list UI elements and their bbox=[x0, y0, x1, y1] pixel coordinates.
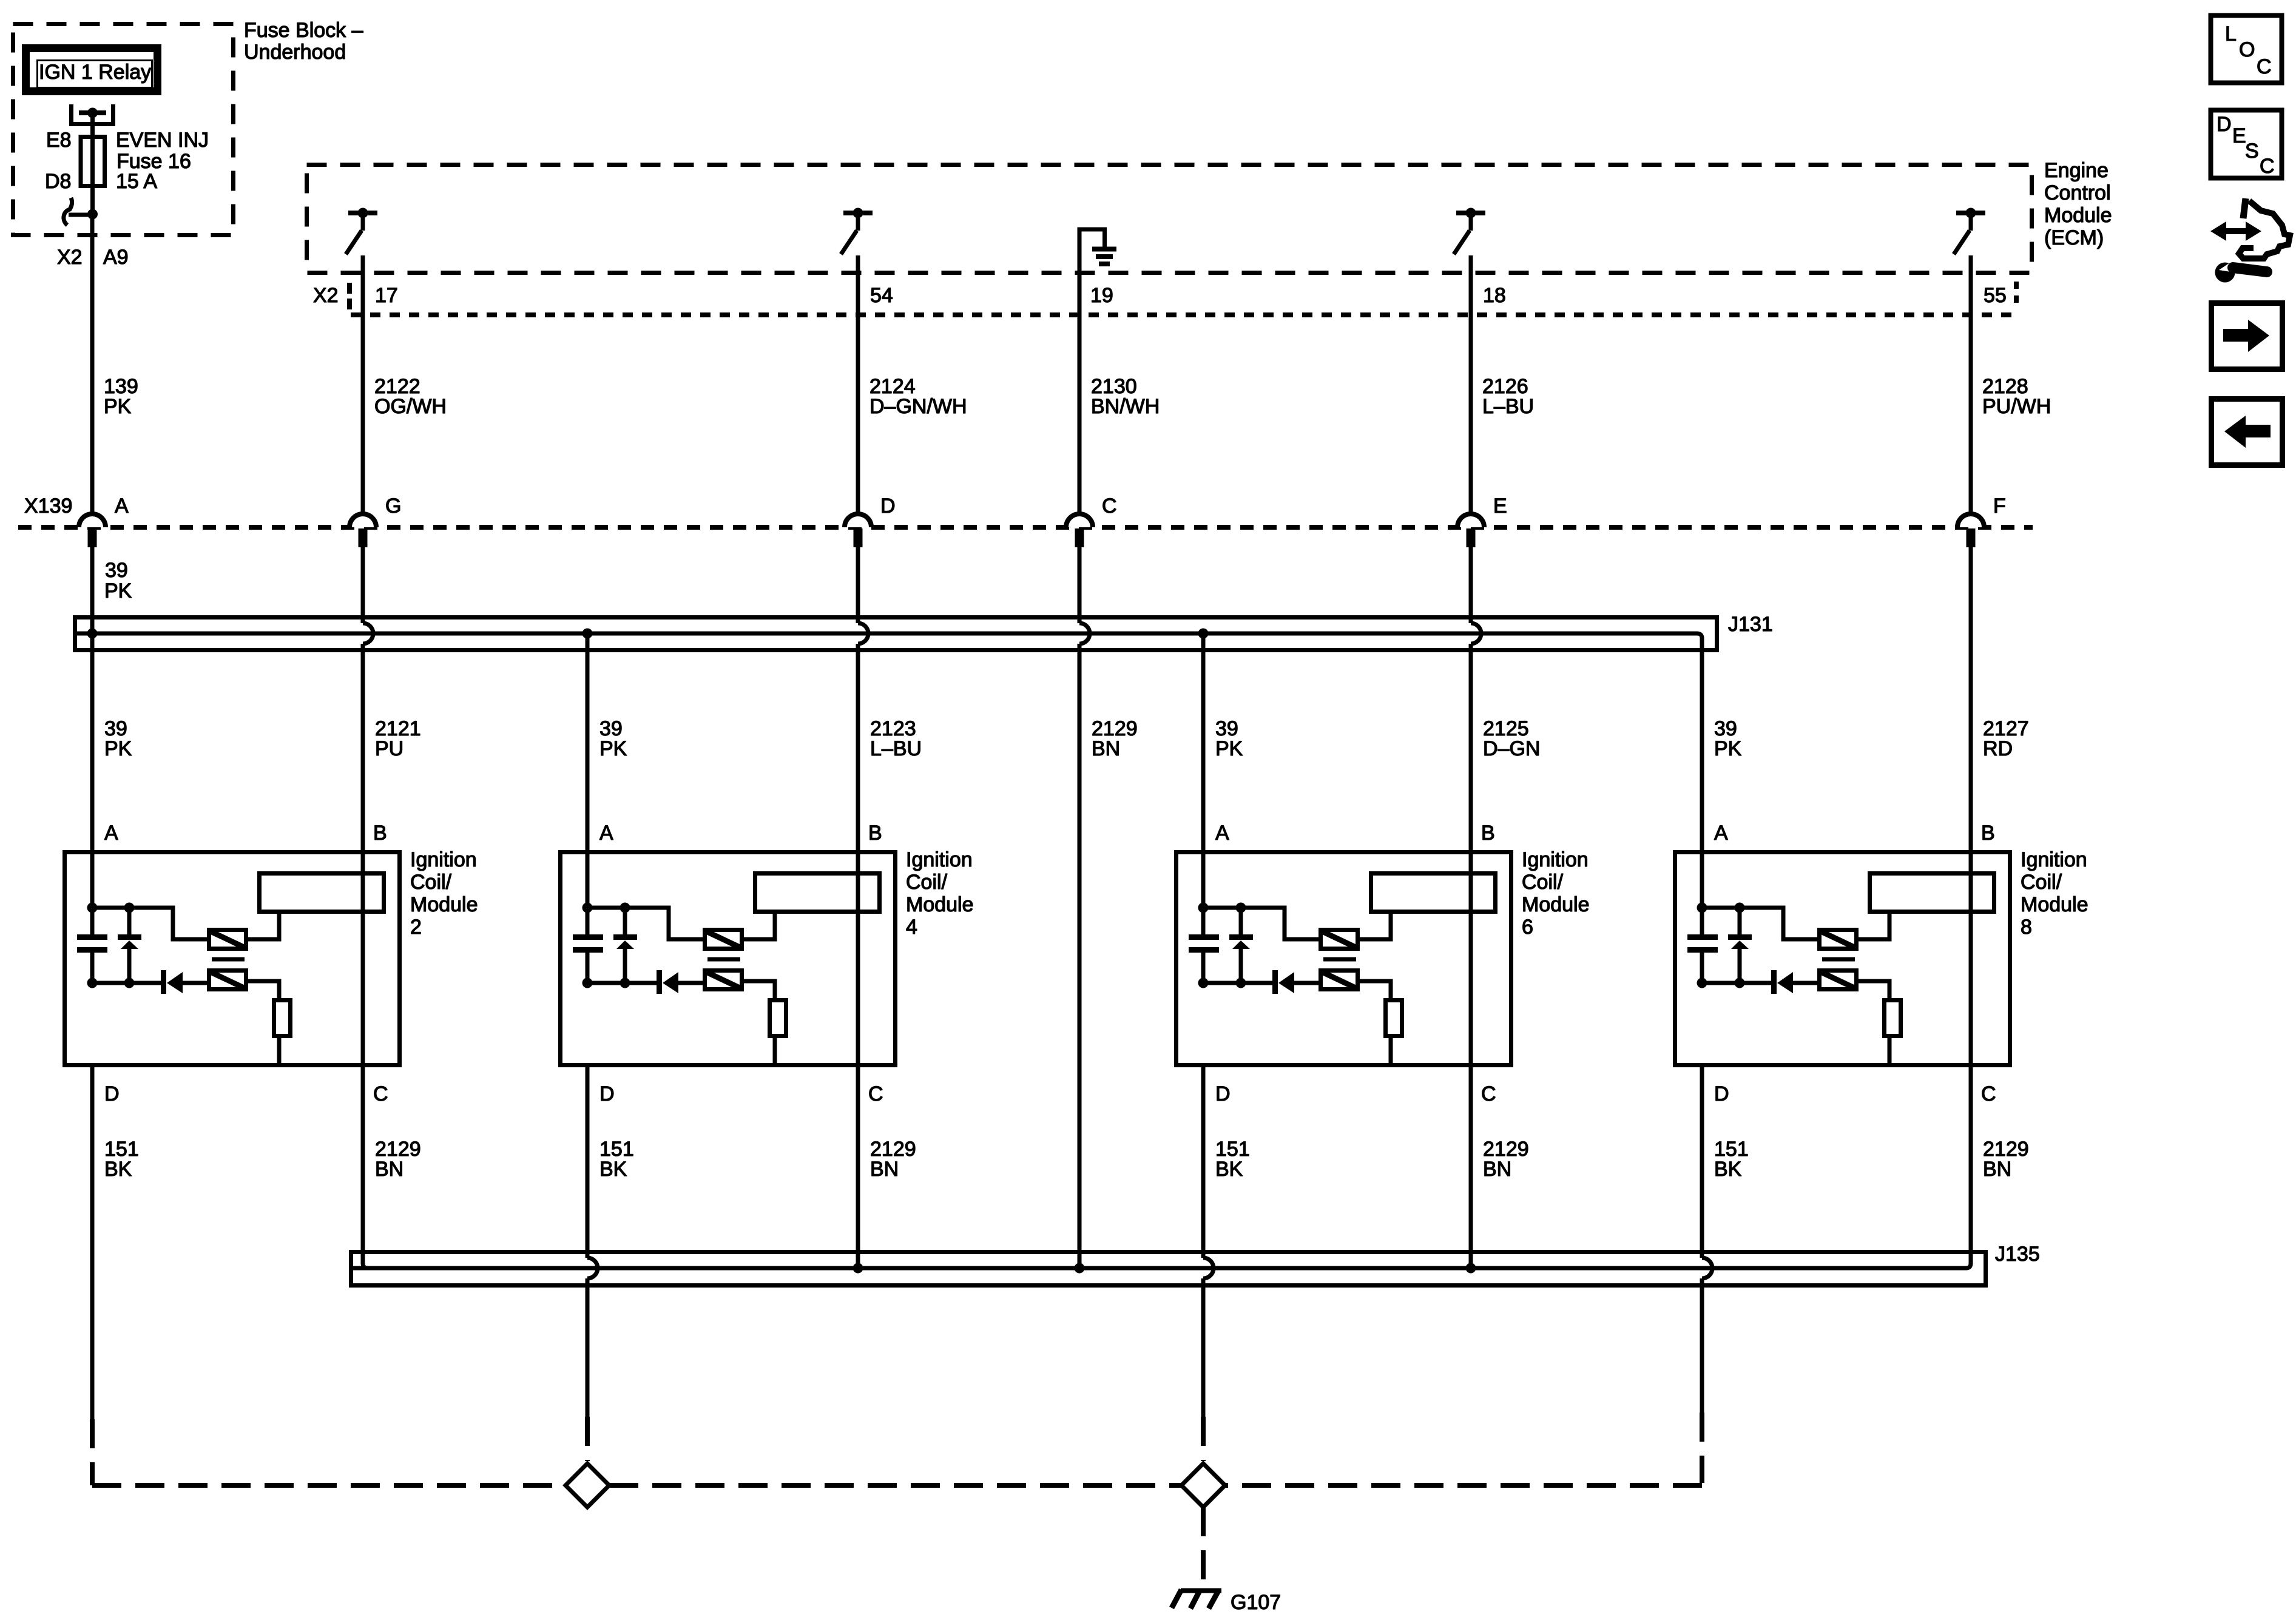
diode D8b (pointing left) bbox=[1774, 970, 1794, 994]
connector X139 dashed line bbox=[18, 525, 2033, 530]
secondary winding block coil 4 bbox=[755, 874, 880, 912]
svg-text:18: 18 bbox=[1483, 284, 1506, 307]
svg-text:C: C bbox=[1481, 1082, 1496, 1106]
svg-text:L–BU: L–BU bbox=[870, 737, 922, 760]
link upper winding to secondary coil 6 bbox=[1360, 914, 1391, 939]
wire segment from X139 to J131 level bbox=[856, 546, 860, 623]
splice pack J131 internal bus wire (39 PK) bbox=[77, 633, 1702, 652]
svg-text:OG/WH: OG/WH bbox=[374, 395, 447, 418]
resistor R2 bbox=[274, 1001, 291, 1066]
svg-text:Module: Module bbox=[2044, 204, 2112, 227]
svg-text:BK: BK bbox=[599, 1158, 627, 1181]
svg-text:19: 19 bbox=[1090, 284, 1113, 307]
splice pack J135 internal bus wire (2129 BN) bbox=[353, 1067, 1971, 1268]
primary winding (upper) coil 4 bbox=[705, 930, 742, 949]
junction dots coil 2 top rail bbox=[87, 903, 135, 913]
relay socket terminal (bracket) bbox=[72, 104, 113, 124]
wire label 2123 L&#8211;BU bbox=[870, 717, 922, 760]
svg-text:B: B bbox=[1481, 822, 1495, 845]
junction dot at relay terminal bbox=[87, 108, 98, 118]
wire label 151 BK bbox=[1215, 1138, 1250, 1181]
svg-text:EVEN INJ: EVEN INJ bbox=[116, 129, 209, 152]
link upper winding to secondary coil 8 bbox=[1859, 914, 1889, 939]
wire 151 BK from coil 8 pin D bbox=[1700, 1067, 1704, 1483]
svg-text:O: O bbox=[2239, 38, 2255, 61]
diode D6b (pointing left) bbox=[1275, 970, 1295, 994]
dashed wire to splice (left run) bbox=[92, 1483, 566, 1488]
svg-text:E8: E8 bbox=[46, 129, 72, 152]
svg-text:B: B bbox=[373, 822, 387, 845]
coil 2 internal rail (pin A node) bbox=[92, 850, 207, 939]
svg-text:PU/WH: PU/WH bbox=[1982, 395, 2051, 418]
junction dot on J135 bus bbox=[1466, 1263, 1476, 1274]
svg-text:A: A bbox=[104, 822, 118, 845]
secondary winding block coil 6 bbox=[1371, 874, 1496, 912]
svg-text:2: 2 bbox=[410, 916, 422, 939]
svg-text:Fuse Block –: Fuse Block – bbox=[244, 19, 363, 42]
sidebar icon: LOC box bbox=[2211, 16, 2282, 83]
ignition coil/module 4 box bbox=[561, 852, 896, 1065]
coil 6 bottom rail (pin D node) bbox=[1203, 981, 1319, 985]
svg-text:Control: Control bbox=[2044, 181, 2111, 204]
svg-text:L: L bbox=[2225, 22, 2237, 46]
svg-text:PK: PK bbox=[599, 737, 627, 760]
capacitor C6 bbox=[1189, 908, 1219, 983]
pin B to pin C wire through coil 8 bbox=[1969, 850, 1973, 1067]
wire segment from X139 to J131 level bbox=[1078, 546, 1082, 623]
svg-text:RD: RD bbox=[1983, 737, 2013, 760]
wire from relay through fuse bbox=[90, 113, 95, 214]
wire label 151 BK bbox=[1714, 1138, 1749, 1181]
wire 2129 BN from coil pin C to J135 bbox=[856, 1067, 860, 1268]
wire crossover hop at J131 bbox=[1079, 623, 1090, 644]
svg-text:BN: BN bbox=[375, 1158, 403, 1181]
wire label 2125 D&#8211;GN bbox=[1483, 717, 1540, 760]
wire 2128 from ECM pin to X139 bbox=[1969, 255, 1973, 512]
svg-text:IGN 1 Relay: IGN 1 Relay bbox=[39, 61, 151, 84]
svg-text:L–BU: L–BU bbox=[1482, 395, 1534, 418]
zener diode D4a (anode up) bbox=[613, 908, 637, 983]
ECM low-side driver (switch) pin 17 bbox=[346, 208, 377, 255]
wire label 2127 RD bbox=[1983, 717, 2029, 760]
svg-text:BN: BN bbox=[1483, 1158, 1511, 1181]
wire label 2129 BN bbox=[1483, 1138, 1529, 1181]
dashed wire from coil 8 leg to splice S2 (right run) bbox=[1225, 1483, 1702, 1488]
svg-text:6: 6 bbox=[1522, 916, 1533, 939]
svg-text:Ignition: Ignition bbox=[1522, 848, 1589, 871]
svg-text:A: A bbox=[1215, 822, 1229, 845]
junction dot on J135 bus bbox=[853, 1263, 863, 1274]
svg-text:Coil/: Coil/ bbox=[1522, 871, 1564, 894]
svg-text:BN/WH: BN/WH bbox=[1091, 395, 1160, 418]
ignition coil/module 2 box bbox=[65, 852, 400, 1065]
wire label 2129 BN bbox=[870, 1138, 916, 1181]
secondary winding block coil 8 bbox=[1870, 874, 1994, 912]
wire label 2126 L-BU bbox=[1482, 375, 1534, 418]
primary winding (upper) coil 8 bbox=[1820, 930, 1857, 949]
connector label X2 | A9 bbox=[57, 246, 129, 269]
wire 2126 from ECM pin to X139 bbox=[1469, 255, 1473, 512]
svg-text:4: 4 bbox=[906, 916, 917, 939]
coil 4 bottom rail (pin D node) bbox=[587, 981, 703, 985]
junction dots coil 4 top rail bbox=[582, 903, 630, 913]
ECM connector label X2 bbox=[313, 284, 339, 307]
zener diode D2a (anode up) bbox=[118, 908, 141, 983]
pin letters coil 8 bbox=[1714, 822, 1996, 1106]
wire 2129 BN continues down through J131 bbox=[1078, 644, 1082, 1268]
junction dots coil 6 bottom rail bbox=[1198, 978, 1246, 988]
splice diamond S2 bbox=[1181, 1463, 1225, 1507]
svg-text:15 A: 15 A bbox=[116, 170, 157, 193]
ECM pin numbers bbox=[375, 284, 2007, 307]
resistor R8 bbox=[1885, 1001, 1901, 1066]
dashed wire from splice S2 to ground bbox=[1201, 1507, 1206, 1585]
svg-text:PK: PK bbox=[104, 579, 132, 603]
svg-text:B: B bbox=[868, 822, 882, 845]
label J131 bbox=[1728, 613, 1773, 636]
capacitor C2 bbox=[77, 908, 107, 983]
svg-text:Ignition: Ignition bbox=[2021, 848, 2087, 871]
pin B to pin C wire through coil 6 bbox=[1469, 850, 1473, 1067]
svg-text:C: C bbox=[373, 1082, 388, 1106]
wire label 2128 PU/WH bbox=[1982, 375, 2051, 418]
splice pack J135 housing bbox=[351, 1252, 1986, 1286]
link lower winding to resistor coil 4 bbox=[744, 981, 775, 998]
svg-text:S: S bbox=[2245, 140, 2259, 163]
junction dots coil 6 top rail bbox=[1198, 903, 1246, 913]
svg-text:D: D bbox=[599, 1082, 615, 1106]
splice pack J131 housing bbox=[75, 618, 1717, 650]
wire label 39 PK bbox=[1215, 717, 1243, 760]
junction dot on J131 bus bbox=[1198, 629, 1209, 639]
wire 2124 from ECM pin to X139 bbox=[856, 255, 860, 512]
svg-text:55: 55 bbox=[1984, 284, 2007, 307]
resistor R4 bbox=[770, 1001, 786, 1066]
wire 151 BK from coil 2 pin D (solid then dashed) bbox=[90, 1067, 95, 1485]
label: Ignition Coil/Module 8 bbox=[2021, 848, 2088, 939]
wire label 151 BK bbox=[599, 1138, 634, 1181]
ECM low-side driver (switch) pin 18 bbox=[1454, 208, 1485, 255]
wire crossover hop at J135 bbox=[1203, 1258, 1214, 1278]
svg-text:D: D bbox=[1714, 1082, 1729, 1106]
ECM internal ground at pin 19 bbox=[1079, 229, 1116, 277]
coil 8 bottom rail (pin D node) bbox=[1702, 981, 1817, 985]
svg-text:G107: G107 bbox=[1231, 1591, 1281, 1614]
primary winding (upper) coil 2 bbox=[209, 930, 246, 949]
diode D4b (pointing left) bbox=[660, 970, 679, 994]
wire label 39 PK bbox=[104, 717, 132, 760]
svg-text:D: D bbox=[104, 1082, 120, 1106]
svg-text:X2: X2 bbox=[313, 284, 339, 307]
svg-text:BN: BN bbox=[1092, 737, 1120, 760]
primary winding (lower) coil 8 bbox=[1820, 971, 1857, 990]
svg-text:Ignition: Ignition bbox=[410, 848, 477, 871]
wire 151 BK from coil 6 pin D bbox=[1201, 1067, 1206, 1461]
junction dots coil 8 bottom rail bbox=[1697, 978, 1745, 988]
svg-text:E: E bbox=[1493, 495, 1507, 518]
core bar coil 2 bbox=[212, 957, 245, 962]
core bar coil 4 bbox=[707, 957, 740, 962]
zener diode D8a (anode up) bbox=[1728, 908, 1752, 983]
svg-text:PK: PK bbox=[1215, 737, 1243, 760]
ECM connector row: dotted boundary bbox=[349, 282, 2016, 315]
core bar coil 8 bbox=[1822, 957, 1855, 962]
svg-text:J135: J135 bbox=[1995, 1243, 2040, 1266]
svg-text:BN: BN bbox=[1983, 1158, 2011, 1181]
label: Fuse Block - Underhood bbox=[244, 19, 363, 64]
diode D2b (pointing left) bbox=[164, 970, 183, 994]
svg-text:A: A bbox=[1714, 822, 1728, 845]
link lower winding to resistor coil 8 bbox=[1859, 981, 1889, 998]
svg-text:Engine: Engine bbox=[2044, 159, 2109, 182]
sidebar icon: back arrow box bbox=[2212, 399, 2283, 465]
wire 39 PK from J131 to ignition coil pin A bbox=[1201, 633, 1206, 850]
svg-text:Module: Module bbox=[410, 893, 478, 916]
svg-text:G: G bbox=[385, 495, 401, 518]
svg-text:Module: Module bbox=[1522, 893, 1590, 916]
coil 8 internal rail (pin A node) bbox=[1702, 850, 1817, 939]
primary winding (lower) coil 4 bbox=[705, 971, 742, 990]
svg-text:D: D bbox=[1215, 1082, 1231, 1106]
wire from J131 hop to ignition coil pin B bbox=[856, 644, 860, 850]
wire segment from X139 to J131 level bbox=[361, 546, 365, 623]
wire from J131 hop to ignition coil pin B bbox=[1469, 644, 1473, 850]
ECM low-side driver (switch) pin 55 bbox=[1954, 208, 1985, 255]
svg-text:D: D bbox=[2217, 113, 2232, 136]
fuse block - underhood dashed enclosure bbox=[13, 24, 234, 235]
coil 4 internal rail (pin A node) bbox=[587, 850, 703, 939]
wire label 39 PK bbox=[1714, 717, 1742, 760]
wire label 151 BK bbox=[104, 1138, 139, 1181]
junction dot on J135 bus bbox=[1075, 1263, 1085, 1274]
svg-text:PU: PU bbox=[375, 737, 403, 760]
pin letters coil 4 bbox=[599, 822, 883, 1106]
junction dot below fuse bbox=[87, 209, 98, 220]
svg-text:A: A bbox=[599, 822, 613, 845]
ground G107 bbox=[1172, 1590, 1221, 1609]
engine control module ECM dashed enclosure bbox=[307, 165, 2032, 273]
junction dot on J131 bus bbox=[582, 629, 593, 639]
label J135 bbox=[1995, 1243, 2040, 1266]
label: Ignition Coil/Module 2 bbox=[410, 848, 478, 939]
sidebar icon: forward arrow box bbox=[2212, 303, 2283, 370]
svg-text:Underhood: Underhood bbox=[244, 41, 346, 64]
wire label 2129 BN bbox=[1092, 717, 1138, 760]
svg-text:C: C bbox=[868, 1082, 883, 1106]
svg-text:(ECM): (ECM) bbox=[2044, 226, 2104, 249]
svg-text:54: 54 bbox=[870, 284, 893, 307]
svg-text:E: E bbox=[2232, 124, 2246, 147]
primary winding (lower) coil 6 bbox=[1321, 971, 1358, 990]
svg-text:D–GN: D–GN bbox=[1483, 737, 1540, 760]
wire segment from X139 to J131 level bbox=[1469, 546, 1473, 623]
pin B to pin C wire through coil 4 bbox=[856, 850, 860, 1067]
svg-text:39: 39 bbox=[105, 559, 128, 582]
svg-text:C: C bbox=[2257, 55, 2272, 78]
svg-text:Ignition: Ignition bbox=[906, 848, 973, 871]
fuse terminal labels E8 / D8 bbox=[45, 129, 72, 193]
wire 139 PK from fuse block to X139 bbox=[90, 214, 95, 512]
svg-text:X139: X139 bbox=[24, 495, 72, 518]
X139 terminal C bbox=[1066, 495, 1117, 547]
wire label 2130 BN/WH bbox=[1091, 375, 1160, 418]
ECM low-side driver (switch) pin 54 bbox=[841, 208, 873, 255]
X139 terminal F bbox=[1957, 495, 2006, 547]
svg-text:BN: BN bbox=[870, 1158, 899, 1181]
svg-text:PK: PK bbox=[104, 395, 132, 418]
svg-text:8: 8 bbox=[2021, 916, 2032, 939]
link upper winding to secondary coil 4 bbox=[744, 914, 775, 939]
junction dot on J131 bus bbox=[87, 629, 98, 639]
svg-text:17: 17 bbox=[375, 284, 398, 307]
ignition coil/module 8 box bbox=[1675, 852, 2010, 1065]
wire 2129 BN from coil pin C to J135 bbox=[1469, 1067, 1473, 1268]
junction dots coil 8 top rail bbox=[1697, 903, 1745, 913]
label: Ignition Coil/Module 4 bbox=[906, 848, 974, 939]
secondary winding block coil 2 bbox=[260, 874, 384, 912]
sidebar icon: connector-service tool (arrow + wrench) bbox=[2210, 198, 2290, 283]
svg-text:D: D bbox=[880, 495, 896, 518]
svg-text:Coil/: Coil/ bbox=[906, 871, 948, 894]
svg-text:D–GN/WH: D–GN/WH bbox=[869, 395, 967, 418]
junction dots coil 4 bottom rail bbox=[582, 978, 630, 988]
wire 2122 from ECM pin to X139 bbox=[361, 255, 365, 512]
X139 terminal G bbox=[349, 495, 401, 547]
fuse F16: EVEN INJ Fuse 16 15 A bbox=[81, 137, 105, 186]
label: Engine Control Module (ECM) bbox=[2044, 159, 2112, 249]
junction dots coil 2 bottom rail bbox=[87, 978, 135, 988]
link lower winding to resistor coil 6 bbox=[1360, 981, 1391, 998]
svg-text:A9: A9 bbox=[103, 246, 129, 269]
svg-text:Coil/: Coil/ bbox=[410, 871, 452, 894]
wire 39 PK from J131 to ignition coil pin A bbox=[586, 633, 590, 850]
ignition coil/module 6 box bbox=[1177, 852, 1511, 1065]
pin B to pin C wire through coil 2 bbox=[361, 850, 365, 1067]
zener diode D6a (anode up) bbox=[1229, 908, 1253, 983]
resistor R6 bbox=[1386, 1001, 1402, 1066]
label G107 bbox=[1231, 1591, 1281, 1614]
link upper winding to secondary coil 2 bbox=[248, 914, 279, 939]
X139 terminal A bbox=[79, 495, 129, 547]
primary winding (lower) coil 2 bbox=[209, 971, 246, 990]
connector hook terminal below fuse bbox=[64, 198, 93, 225]
svg-text:Module: Module bbox=[2021, 893, 2088, 916]
wire 2130 BN/WH from ECM pin 19 to X139 bbox=[1078, 275, 1082, 512]
fuse name label bbox=[116, 129, 209, 193]
wire label 139 PK bbox=[104, 375, 138, 418]
wire 39 PK from J131 right end to coil 8 pin A bbox=[1700, 652, 1704, 850]
svg-text:J131: J131 bbox=[1728, 613, 1773, 636]
wire crossover hop at J131 bbox=[363, 623, 373, 644]
wire label 2129 BN bbox=[375, 1138, 421, 1181]
svg-text:PK: PK bbox=[1714, 737, 1742, 760]
svg-text:BK: BK bbox=[104, 1158, 132, 1181]
svg-text:Coil/: Coil/ bbox=[2021, 871, 2062, 894]
X139 terminal D bbox=[845, 495, 896, 547]
wire crossover hop at J135 bbox=[587, 1258, 598, 1278]
wire crossover hop at J135 bbox=[1702, 1258, 1712, 1278]
connector label X139 bbox=[24, 495, 72, 518]
wire label 39 PK bbox=[599, 717, 627, 760]
sidebar icon: DESC box bbox=[2211, 110, 2282, 178]
wire crossover hop at J131 bbox=[1471, 623, 1481, 644]
wire label 2122 OG/WH bbox=[374, 375, 447, 418]
wire segment from X139 to J131 level bbox=[1969, 546, 1973, 623]
svg-text:Module: Module bbox=[906, 893, 974, 916]
wire 151 BK from coil 4 pin D bbox=[586, 1067, 590, 1461]
svg-text:C: C bbox=[1102, 495, 1117, 518]
wire crossover hop at J131 bbox=[858, 623, 868, 644]
svg-text:B: B bbox=[1981, 822, 1995, 845]
splice diamond S1 bbox=[566, 1463, 609, 1507]
wire 2127 RD from X139-F to coil 8 pin B bbox=[1969, 546, 1973, 850]
relay K: IGN 1 Relay bbox=[26, 49, 158, 92]
wire 39 PK from X139-A to J131 bbox=[90, 546, 95, 633]
dashed wire between splices bbox=[609, 1483, 1181, 1488]
wire label 2124 D-GN/WH bbox=[869, 375, 967, 418]
primary winding (upper) coil 6 bbox=[1321, 930, 1358, 949]
wire from J131 hop to ignition coil pin B bbox=[361, 644, 365, 850]
svg-text:X2: X2 bbox=[57, 246, 83, 269]
svg-text:F: F bbox=[1993, 495, 2006, 518]
core bar coil 6 bbox=[1323, 957, 1356, 962]
label: Ignition Coil/Module 6 bbox=[1522, 848, 1590, 939]
capacitor C4 bbox=[573, 908, 603, 983]
svg-text:C: C bbox=[2260, 155, 2275, 178]
wire label 2121 PU bbox=[375, 717, 421, 760]
svg-text:C: C bbox=[1981, 1082, 1996, 1106]
wire 39 PK from J131 to ignition coil pin A bbox=[90, 633, 95, 850]
svg-text:BK: BK bbox=[1215, 1158, 1243, 1181]
svg-text:A: A bbox=[115, 495, 129, 518]
wire label 2129 BN bbox=[1983, 1138, 2029, 1181]
capacitor C8 bbox=[1687, 908, 1718, 983]
svg-text:PK: PK bbox=[104, 737, 132, 760]
X139 terminal E bbox=[1457, 495, 1507, 547]
pin letters coil 2 bbox=[104, 822, 388, 1106]
link lower winding to resistor coil 2 bbox=[248, 981, 279, 998]
svg-text:BK: BK bbox=[1714, 1158, 1742, 1181]
pin letters coil 6 bbox=[1215, 822, 1496, 1106]
wire label 39 PK bbox=[104, 559, 132, 603]
coil 6 internal rail (pin A node) bbox=[1203, 850, 1319, 939]
svg-text:D8: D8 bbox=[45, 170, 71, 193]
coil 2 bottom rail (pin D node) bbox=[92, 981, 207, 985]
